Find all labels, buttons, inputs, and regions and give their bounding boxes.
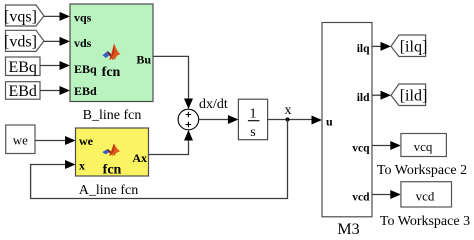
wire [vds] to vds port	[44, 37, 70, 46]
integrator block 1/s	[238, 99, 267, 140]
svg-text:vds: vds	[74, 36, 92, 50]
wire EBd to EBd port	[40, 86, 70, 95]
sum junction block	[178, 109, 199, 130]
subsystem block M3	[322, 23, 372, 217]
port label ild	[357, 92, 370, 104]
source block EBq	[6, 57, 41, 76]
svg-text:EBd: EBd	[74, 84, 97, 98]
svg-text:[ild]: [ild]	[400, 88, 428, 105]
feedback wire x to A_line x port	[31, 120, 288, 199]
svg-text:we: we	[13, 133, 28, 148]
svg-text:vqs: vqs	[74, 11, 92, 25]
wire vcq to workspace 2	[372, 141, 401, 150]
port label vcd	[352, 191, 370, 203]
block name label M3	[337, 221, 359, 238]
wire ild to goto [ild]	[372, 91, 391, 100]
wire we to we port	[35, 136, 76, 145]
svg-text:EBq: EBq	[74, 62, 97, 76]
fcn label B_line	[102, 65, 121, 80]
svg-text:x: x	[285, 103, 292, 118]
from block [vqs]	[4, 5, 44, 26]
svg-text:[vds]: [vds]	[4, 34, 37, 51]
source block EBd	[6, 82, 41, 100]
net label x	[285, 103, 292, 118]
block name label To Workspace 2	[377, 163, 467, 178]
svg-text:x: x	[79, 159, 85, 173]
svg-text:[vqs]: [vqs]	[4, 9, 37, 26]
fcn label A_line	[103, 163, 122, 178]
svg-text:[ilq]: [ilq]	[400, 38, 428, 55]
block name label A_line fcn	[79, 183, 138, 198]
wire [vqs] to vqs port	[44, 12, 70, 21]
wire EBq to EBq port	[40, 61, 70, 70]
port label Bu	[136, 53, 151, 67]
svg-text:u: u	[326, 115, 333, 129]
node x junction	[286, 118, 290, 122]
port label Ax	[132, 151, 147, 165]
wire Bu to sum	[153, 56, 193, 109]
svg-text:To Workspace 3: To Workspace 3	[380, 214, 470, 229]
wire ilq to goto [ilq]	[372, 42, 391, 51]
to workspace block vcq	[401, 134, 447, 157]
port label vcq	[352, 143, 370, 155]
svg-text:we: we	[79, 134, 94, 148]
svg-text:vcd: vcd	[352, 191, 370, 203]
goto block [ild]	[391, 84, 427, 106]
goto block [ilq]	[391, 35, 427, 57]
wire vcd to workspace 3	[372, 190, 401, 199]
function block A_line fcn	[76, 128, 149, 176]
net label dx/dt	[199, 97, 228, 112]
svg-text:M3: M3	[337, 221, 359, 237]
svg-text:fcn: fcn	[103, 163, 122, 178]
port label vqs	[74, 11, 92, 25]
svg-text:To Workspace 2: To Workspace 2	[377, 163, 467, 178]
svg-text:dx/dt: dx/dt	[199, 97, 228, 112]
port label x (A_line)	[79, 159, 85, 173]
wire Ax to sum	[149, 130, 194, 155]
to workspace block vcd	[401, 182, 452, 207]
wire integrator to M3 u	[268, 116, 322, 125]
wire sum to integrator	[199, 115, 239, 124]
svg-text:vcq: vcq	[414, 139, 433, 154]
svg-text:s: s	[250, 125, 255, 140]
port label EBq	[74, 62, 97, 76]
svg-text:B_line fcn: B_line fcn	[83, 108, 142, 123]
source block we	[6, 125, 35, 154]
matlab logo A_line	[103, 144, 120, 155]
svg-text:ilq: ilq	[357, 43, 370, 55]
port label we (A_line)	[79, 134, 94, 148]
port label vds	[74, 36, 92, 50]
svg-text:fcn: fcn	[102, 65, 121, 80]
svg-text:EBd: EBd	[8, 83, 36, 100]
function block B_line fcn	[70, 4, 153, 102]
svg-text:vcq: vcq	[352, 143, 370, 155]
matlab logo B_line	[103, 45, 120, 60]
svg-text:A_line fcn: A_line fcn	[79, 183, 138, 198]
block name label To Workspace 3	[380, 214, 470, 229]
svg-text:Ax: Ax	[132, 151, 147, 165]
block name label B_line fcn	[83, 108, 142, 123]
svg-text:1: 1	[250, 107, 257, 122]
port label EBd	[74, 84, 97, 98]
svg-text:vcd: vcd	[416, 189, 435, 204]
port label u	[326, 115, 333, 129]
svg-text:Bu: Bu	[136, 53, 151, 67]
svg-text:EBq: EBq	[8, 59, 36, 76]
svg-text:ild: ild	[357, 92, 370, 104]
from block [vds]	[4, 30, 44, 51]
port label ilq	[357, 43, 370, 55]
